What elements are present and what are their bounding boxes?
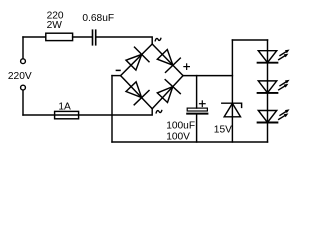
svg-text:15V: 15V bbox=[214, 125, 232, 136]
wire LED column bbox=[267, 40, 269, 142]
wire bridge left to drop bbox=[112, 75, 121, 77]
LED D6 bbox=[258, 81, 278, 93]
terminal bottom bbox=[21, 85, 26, 90]
diode D2 top-right bbox=[157, 50, 180, 73]
zener diode 15V bar bbox=[222, 103, 242, 107]
diode D1 top-left bbox=[126, 47, 149, 70]
resistor 220 2W bbox=[46, 33, 73, 40]
capacitor 100uF plate top bbox=[187, 108, 207, 111]
fuse 1A bbox=[55, 111, 79, 118]
LED D5 bbox=[258, 51, 278, 63]
terminal top bbox=[21, 59, 26, 64]
wire bottom to fuse and bridge bottom bbox=[23, 109, 152, 115]
bridge edge bottom-left bbox=[121, 76, 153, 109]
bridge edge top-right bbox=[152, 44, 183, 76]
wire capacitor to bridge top bbox=[96, 37, 152, 44]
label plus capacitor bbox=[200, 101, 206, 107]
svg-text:100uF: 100uF bbox=[166, 120, 195, 131]
wire riser and zener branch vertical bbox=[231, 40, 233, 142]
svg-text:100V: 100V bbox=[166, 132, 190, 143]
zener diode 15V triangle bbox=[224, 103, 240, 116]
capacitor 100uF plate bottom bbox=[187, 113, 207, 115]
capacitor 0.68uF bbox=[93, 30, 96, 45]
diode D4 bottom-right bbox=[157, 80, 180, 103]
wire left drop down bbox=[111, 76, 113, 142]
svg-text:2W: 2W bbox=[47, 20, 63, 31]
bridge edge top-left bbox=[121, 44, 153, 76]
LED D6 arrows bbox=[279, 80, 290, 90]
LED D7 bbox=[258, 111, 278, 123]
LED D5 arrows bbox=[279, 50, 290, 60]
label plus right vertex bbox=[184, 64, 190, 70]
capacitor 100uF lead top bbox=[196, 76, 198, 108]
wire top rail from terminal to resistor bbox=[23, 36, 46, 38]
label ~ top bbox=[155, 38, 161, 41]
wire resistor to capacitor bbox=[73, 36, 92, 38]
bridge edge bottom-right bbox=[152, 76, 183, 109]
wire bottom terminal down bbox=[22, 90, 24, 115]
wire bridge right to junction bbox=[183, 75, 232, 77]
wire bottom rail bbox=[112, 141, 268, 143]
wire top rail to LED column bbox=[232, 39, 267, 41]
wire terminal riser bbox=[22, 37, 24, 59]
LED D7 arrows bbox=[279, 109, 290, 119]
diode D3 bottom-left bbox=[126, 82, 149, 105]
svg-text:1A: 1A bbox=[58, 102, 71, 113]
svg-text:220V: 220V bbox=[8, 71, 32, 82]
capacitor 100uF lead bottom bbox=[196, 115, 198, 142]
svg-text:0.68uF: 0.68uF bbox=[82, 13, 114, 24]
label ~ bottom bbox=[156, 110, 162, 113]
label minus left bbox=[116, 69, 120, 71]
